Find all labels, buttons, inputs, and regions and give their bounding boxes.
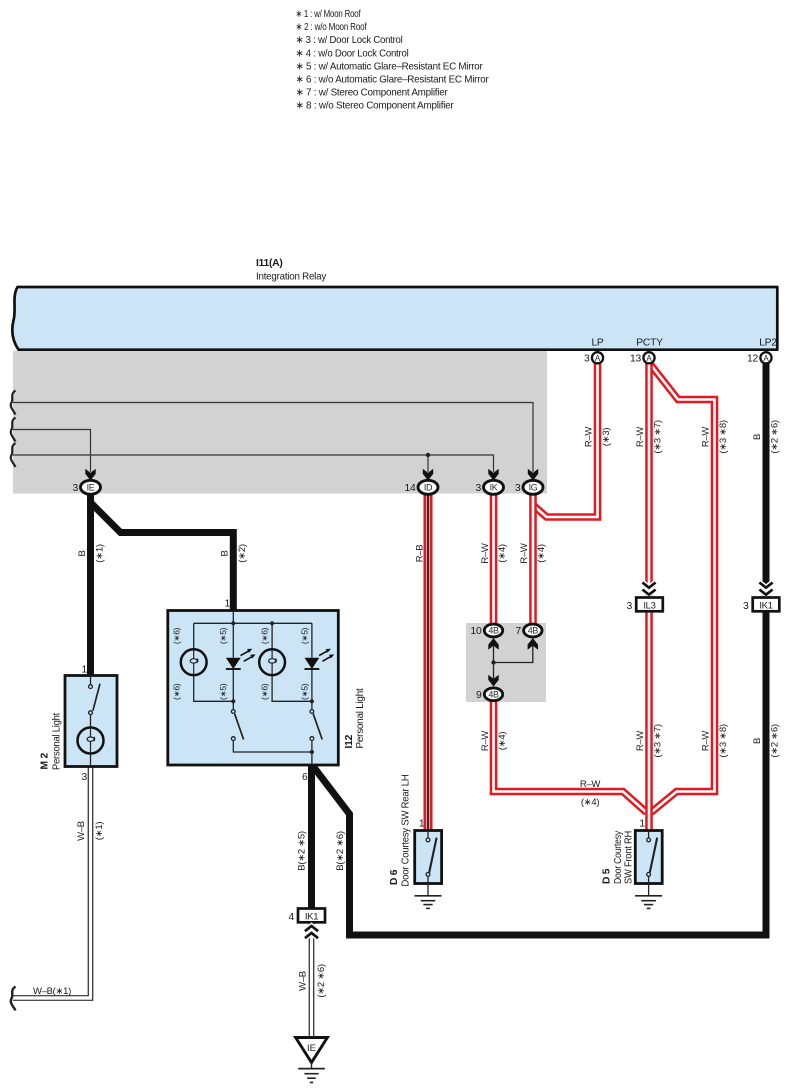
I12 LED 1 (diode) [226, 658, 241, 669]
relay pin LP (3) circle A [592, 352, 603, 363]
wire: internal relay line to ID and IK [13, 455, 494, 472]
wire R-W (*4): IG down to connector 4B (7) [529, 493, 537, 627]
svg-text:(∗4): (∗4) [536, 544, 547, 563]
svg-text:12: 12 [747, 354, 758, 365]
I12 bulb 1 leads [194, 623, 234, 701]
wire: junction to 4B(7) [494, 640, 533, 663]
svg-text:(∗4): (∗4) [497, 544, 508, 563]
connector ID (14) [418, 480, 438, 494]
svg-text:1: 1 [639, 819, 645, 830]
I12 switch 2 [311, 701, 313, 709]
svg-text:A: A [763, 354, 769, 363]
wire B (*2): branch from trunk to I12 pin 1 [92, 504, 234, 612]
relay pin PCTY (13) circle A [643, 352, 654, 363]
M2 switch lower contact [89, 711, 93, 715]
M2 bulb filament [90, 728, 92, 737]
junction dot bulb1+LED1 [231, 699, 235, 703]
relay I11(A) Integration Relay (blue band, torn left edge) [12, 287, 777, 350]
M2 switch blade [93, 684, 100, 711]
component I12 Personal Light (box) [168, 611, 338, 766]
svg-text:B: B [220, 550, 231, 556]
connector 4B (10) [484, 624, 502, 637]
page-break chevrons above IK1 right [759, 583, 772, 595]
junction dot 4B cluster [491, 660, 495, 664]
svg-text:SW Front RH: SW Front RH [624, 831, 635, 884]
I12 option labels (*6)/(*5) [172, 627, 310, 700]
svg-text:I11(A): I11(A) [256, 258, 283, 269]
M2 bulb circle [78, 728, 104, 754]
D6 switch upper contact [426, 838, 430, 842]
I12 LED 2 lead [311, 623, 313, 701]
connector 4B (7) [524, 624, 542, 637]
svg-text:Personal Light: Personal Light [355, 688, 366, 748]
svg-text:3: 3 [476, 483, 482, 494]
svg-text:A: A [646, 354, 652, 363]
arrow into ID [423, 469, 433, 481]
svg-text:1: 1 [82, 665, 88, 676]
D6 lead to ground [427, 876, 429, 896]
wire: junction down to 4B(9) [493, 663, 495, 685]
svg-text:(∗3): (∗3) [601, 428, 612, 447]
svg-text:LP2: LP2 [759, 338, 777, 349]
connector 4B (9) [484, 688, 502, 701]
svg-text:10: 10 [471, 626, 482, 637]
D6 lead from pin 1 [427, 831, 429, 839]
connector IG (3) [523, 480, 543, 494]
svg-text:(∗3 ∗8): (∗3 ∗8) [718, 420, 729, 453]
svg-text:4B: 4B [528, 626, 539, 636]
svg-text:IG: IG [529, 482, 538, 492]
svg-text:(∗2): (∗2) [237, 544, 248, 563]
I12 LED 2 emission arrows [319, 651, 331, 661]
page-break chevrons above IL3 [642, 583, 655, 595]
junction dot bulb2+LED2 [310, 699, 314, 703]
svg-text:R–W: R–W [701, 427, 712, 448]
svg-text:R–B: R–B [415, 545, 426, 563]
I12 LED 2 (diode) [305, 658, 320, 669]
svg-text:Door Courtesy SW Rear LH: Door Courtesy SW Rear LH [401, 775, 412, 887]
svg-text:∗ 7 : w/ Stereo Component Ampl: ∗ 7 : w/ Stereo Component Amplifier [296, 88, 449, 99]
svg-text:R–W: R–W [584, 427, 595, 448]
svg-text:IK1: IK1 [759, 600, 772, 611]
svg-text:R–W: R–W [635, 427, 646, 448]
wire R-W (*3 *8): PCTY branch loop to D5 pin 1 [651, 365, 715, 813]
arrow into 4B (10) [488, 638, 498, 650]
svg-text:I12: I12 [344, 734, 355, 748]
wire B (*2 *5): I12 pin 6 down to connector IK1 (4) [308, 764, 315, 909]
svg-text:(∗3 ∗7): (∗3 ∗7) [653, 420, 664, 453]
svg-text:7: 7 [516, 626, 522, 637]
svg-text:IL3: IL3 [643, 600, 655, 611]
svg-text:∗ 6 : w/o Automatic Glare–Resi: ∗ 6 : w/o Automatic Glare–Resistant EC M… [296, 75, 490, 86]
D5 lead to ground [648, 876, 650, 896]
svg-text:R–W: R–W [701, 731, 712, 752]
ground symbol (D6) [415, 896, 442, 909]
svg-text:(∗6): (∗6) [172, 683, 182, 700]
svg-text:IK1: IK1 [305, 911, 318, 922]
svg-text:M 2: M 2 [40, 753, 51, 770]
wire: internal relay line to IE [13, 430, 91, 473]
arrow into IK [488, 469, 498, 481]
svg-text:PCTY: PCTY [636, 338, 663, 349]
svg-text:B: B [752, 738, 763, 744]
D5 switch upper contact [647, 838, 651, 842]
svg-text:3: 3 [82, 772, 88, 783]
svg-text:∗ 3 : w/ Door Lock Control: ∗ 3 : w/ Door Lock Control [296, 35, 403, 46]
I12 internal bus [194, 622, 312, 624]
svg-text:R–W: R–W [580, 779, 601, 790]
svg-text:(∗4): (∗4) [581, 797, 600, 808]
svg-text:R–W: R–W [635, 731, 646, 752]
ground symbol (IE) [298, 1063, 325, 1083]
wire R-W (*4): IK down to connector 4B (10) [490, 493, 498, 627]
M2 switch upper contact [89, 685, 93, 689]
wire W-B (*2 *6): below connector IK1 (4) to ground IE [309, 922, 315, 1039]
svg-text:W–B: W–B [76, 821, 87, 841]
svg-text:B: B [77, 550, 88, 556]
svg-text:B(∗2 ∗6): B(∗2 ∗6) [335, 831, 346, 871]
connector IK (3) [484, 480, 504, 494]
M2 lead to pin 3 [90, 754, 92, 767]
svg-text:9: 9 [476, 690, 482, 701]
wire: 4B(10) to junction [493, 640, 495, 663]
arrow into IE [85, 469, 95, 481]
legend: option notes list [296, 9, 490, 112]
I12 lead from pin 1 [232, 611, 234, 624]
svg-text:(∗4): (∗4) [497, 732, 508, 751]
svg-text:(∗1): (∗1) [95, 544, 106, 563]
component M2 Personal Light (box) [65, 676, 117, 767]
I12 bulb 2 [259, 649, 285, 675]
svg-text:Door Courtesy: Door Courtesy [613, 830, 624, 884]
svg-text:(∗2 ∗6): (∗2 ∗6) [770, 420, 781, 453]
svg-text:(∗2 ∗6): (∗2 ∗6) [316, 964, 327, 997]
wire: branch down to ID [427, 455, 429, 472]
svg-text:B(∗2 ∗5): B(∗2 ∗5) [297, 831, 308, 871]
svg-text:13: 13 [630, 354, 641, 365]
svg-text:(∗2 ∗6): (∗2 ∗6) [770, 724, 781, 757]
wire R-W (*3): LP to IG junction [534, 362, 598, 517]
I12 switch 1 [232, 701, 234, 709]
svg-text:(∗5): (∗5) [218, 627, 228, 644]
wire R-W (*4): connector 4B (9) to D5 pin 1 [494, 699, 647, 813]
M2 internal lead from pin 1 [90, 676, 92, 685]
svg-text:(∗1): (∗1) [94, 822, 105, 841]
svg-text:R–W: R–W [480, 543, 491, 564]
D5 switch lower contact [647, 873, 651, 877]
junction dot switch outputs [310, 750, 314, 754]
torn-wire squiggle 2 [11, 418, 16, 442]
svg-text:4B: 4B [488, 689, 499, 699]
svg-text:R–W: R–W [519, 543, 530, 564]
svg-text:3: 3 [73, 483, 79, 494]
svg-text:IE: IE [87, 482, 95, 492]
svg-text:3: 3 [584, 354, 590, 365]
wire B (*2 *6): I12 pin 6, diagonal, bottom run, up to LP2 [313, 363, 767, 935]
svg-text:W–B: W–B [298, 971, 309, 991]
svg-text:3: 3 [627, 601, 633, 612]
D5 switch blade [650, 838, 657, 873]
svg-text:LP: LP [591, 338, 603, 349]
svg-text:∗ 5 : w/ Automatic Glare–Resis: ∗ 5 : w/ Automatic Glare–Resistant EC Mi… [296, 61, 484, 72]
junction block shading (gray band) [13, 351, 547, 494]
relay pin LP2 (12) circle A [760, 352, 771, 363]
connector IK1 (4) bottom [298, 909, 325, 923]
svg-text:3: 3 [743, 601, 749, 612]
svg-text:(∗3 ∗7): (∗3 ∗7) [653, 724, 664, 757]
ground symbol (D5) [635, 896, 662, 909]
svg-text:1: 1 [225, 599, 231, 610]
svg-text:(∗5): (∗5) [299, 627, 309, 644]
junction dot on ID/IK line [426, 453, 430, 457]
svg-text:∗ 8 : w/o Stereo Component Amp: ∗ 8 : w/o Stereo Component Amplifier [296, 101, 455, 112]
component D5 door courtesy switch (box) [635, 831, 662, 884]
svg-text:∗ 2 : w/o Moon Roof: ∗ 2 : w/o Moon Roof [296, 22, 367, 33]
svg-text:ID: ID [424, 482, 433, 492]
M2 lead to bulb [90, 715, 92, 728]
svg-text:Personal Light: Personal Light [52, 713, 63, 770]
svg-text:IK: IK [490, 482, 498, 492]
component D6 door courtesy switch (box) [415, 831, 442, 884]
I12 LED 1 emission arrows [241, 651, 253, 661]
svg-text:4B: 4B [488, 626, 499, 636]
svg-text:A: A [595, 354, 601, 363]
wire R-W (*3 *7): PCTY down through IL3 to D5 pin 1 [645, 362, 653, 831]
D6 switch blade [429, 838, 436, 873]
wire W-B (*1): M2 pin 3 down and left to off-page [13, 767, 91, 999]
junction dot pin1/bus [231, 621, 235, 625]
svg-text:(∗5): (∗5) [299, 683, 309, 700]
svg-text:D 5: D 5 [602, 868, 613, 884]
wire B (*1): IE trunk down to M2 pin 1 [87, 492, 94, 676]
connector IL3 (3) [636, 598, 663, 612]
svg-text:14: 14 [405, 483, 416, 494]
svg-text:D 6: D 6 [389, 869, 400, 885]
I12 bulb 1 [181, 649, 207, 675]
svg-text:W–B(∗1): W–B(∗1) [33, 986, 71, 997]
wire R-B: ID down to D6 pin 1 [424, 493, 433, 832]
svg-text:Integration Relay: Integration Relay [256, 272, 327, 283]
D6 switch lower contact [426, 873, 430, 877]
junction dot bulb2/bus [270, 621, 274, 625]
torn-wire squiggle at W-B end [11, 987, 16, 1011]
svg-text:(∗6): (∗6) [259, 627, 269, 644]
torn-wire squiggle 1 [11, 391, 16, 415]
arrow into IG [528, 469, 538, 481]
I12 LED 1 lead [232, 623, 234, 701]
svg-text:6: 6 [302, 772, 308, 783]
svg-text:∗ 4 : w/o Door Lock Control: ∗ 4 : w/o Door Lock Control [296, 48, 409, 59]
torn-wire squiggle 3 [11, 443, 16, 467]
wire: internal relay line to IG [13, 403, 533, 473]
ground connector IE (triangle) [296, 1038, 328, 1063]
svg-text:4: 4 [289, 912, 295, 923]
svg-text:(∗5): (∗5) [218, 683, 228, 700]
D5 lead from pin 1 [648, 831, 650, 839]
svg-text:(∗3 ∗8): (∗3 ∗8) [718, 724, 729, 757]
arrow into 4B (7) [528, 638, 538, 650]
I12 bulb 2 leads [272, 623, 312, 701]
svg-text:(∗6): (∗6) [172, 627, 182, 644]
svg-text:1: 1 [419, 819, 425, 830]
page-break chevrons below IK1 bottom [305, 926, 318, 938]
svg-text:R–W: R–W [480, 731, 491, 752]
svg-text:(∗6): (∗6) [259, 683, 269, 700]
junction block shading (4B connector gray box) [466, 623, 546, 702]
svg-text:IE: IE [307, 1043, 316, 1054]
svg-text:∗ 1 : w/ Moon Roof: ∗ 1 : w/ Moon Roof [296, 9, 361, 20]
svg-text:3: 3 [515, 483, 521, 494]
connector IE (3) [81, 480, 101, 494]
arrow into 4B (9) [488, 675, 498, 687]
svg-text:B: B [752, 434, 763, 440]
connector IK1 (3) right [753, 598, 780, 612]
